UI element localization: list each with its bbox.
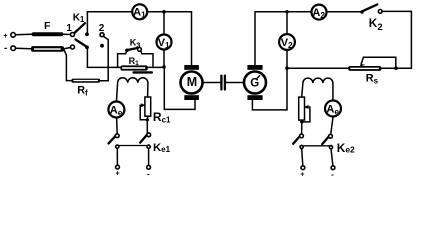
svg-text:-: - [147,168,150,178]
svg-text:+: + [116,170,120,177]
svg-text:1: 1 [66,23,72,34]
svg-text:+: + [300,171,304,178]
svg-text:-: - [4,43,7,54]
svg-text:M: M [187,75,197,89]
svg-text:+: + [3,31,8,40]
svg-text:-: - [331,169,334,179]
svg-text:G: G [250,78,259,90]
svg-text:F: F [44,20,51,32]
svg-text:K1: K1 [73,13,85,24]
svg-text:2: 2 [99,23,105,34]
